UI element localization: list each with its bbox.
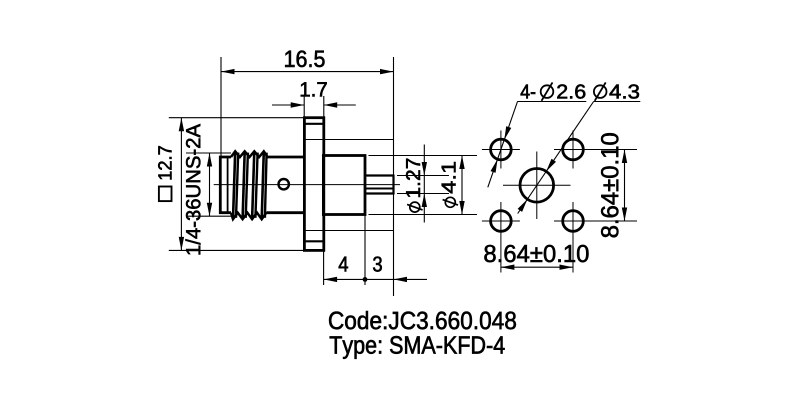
mounting hole top-right dia 2.6 [563,139,584,160]
underline dia4.3 [594,101,641,103]
mounting hole top-left dia 2.6 [491,139,512,160]
label dia 4.1 [442,162,458,207]
label dia 1.27 [406,159,423,212]
dimension dia 4.1 [369,155,478,157]
thread crest profile bottom [231,213,267,220]
leader to top-left hole [488,102,518,188]
rear body outline [323,156,365,215]
flange top inset line [304,123,323,125]
wire lower mounting-hole centerline [304,230,394,232]
crosshair top-left hole [482,149,520,151]
type text [330,336,505,359]
crosshair bottom-right hole [554,220,637,222]
connector front body outline [220,157,231,213]
mounting hole bottom-right dia 2.6 [563,211,584,232]
mounting hole bottom-left dia 2.6 [491,211,512,232]
wire connector axis centerline [214,184,400,186]
contact pin end cap [392,175,394,195]
solder hole on body [279,179,289,189]
dimension dia 1.27 [397,175,449,177]
flange bottom inset line [304,240,323,242]
label 1/4-36UNS-2A [186,124,201,255]
crosshair bottom-left hole [482,220,520,222]
underline 4-dia2.6 [517,101,586,103]
dimension 16.5 [220,57,222,156]
thread flank hatching [233,151,235,219]
wire upper mounting-hole centerline [304,139,394,141]
thread crest profile top [231,151,267,157]
code text [329,311,516,329]
dimension 8.64 +/- 0.10 horizontal [501,266,573,268]
thread spec dimension [186,152,231,154]
dimension 1.7 [303,96,305,117]
dimension square 12.7 [169,117,304,119]
label square 12.7 [158,146,171,201]
front face line [227,157,229,213]
label dia4.3 [594,85,607,98]
contact pin top edge [365,174,394,176]
leader to center hole [518,102,594,214]
flange outline [304,118,323,251]
crosshair top-right hole [554,149,637,151]
dimensions 4 and 3 [323,252,325,286]
contact pin inner line [365,188,394,190]
center hole dia 4.3 [520,169,554,203]
label 4-dia2.6 [521,85,536,99]
contact pin bottom edge [365,192,394,194]
crosshair center hole [503,184,571,186]
dimension 8.64 +/- 0.10 vertical [624,150,626,222]
